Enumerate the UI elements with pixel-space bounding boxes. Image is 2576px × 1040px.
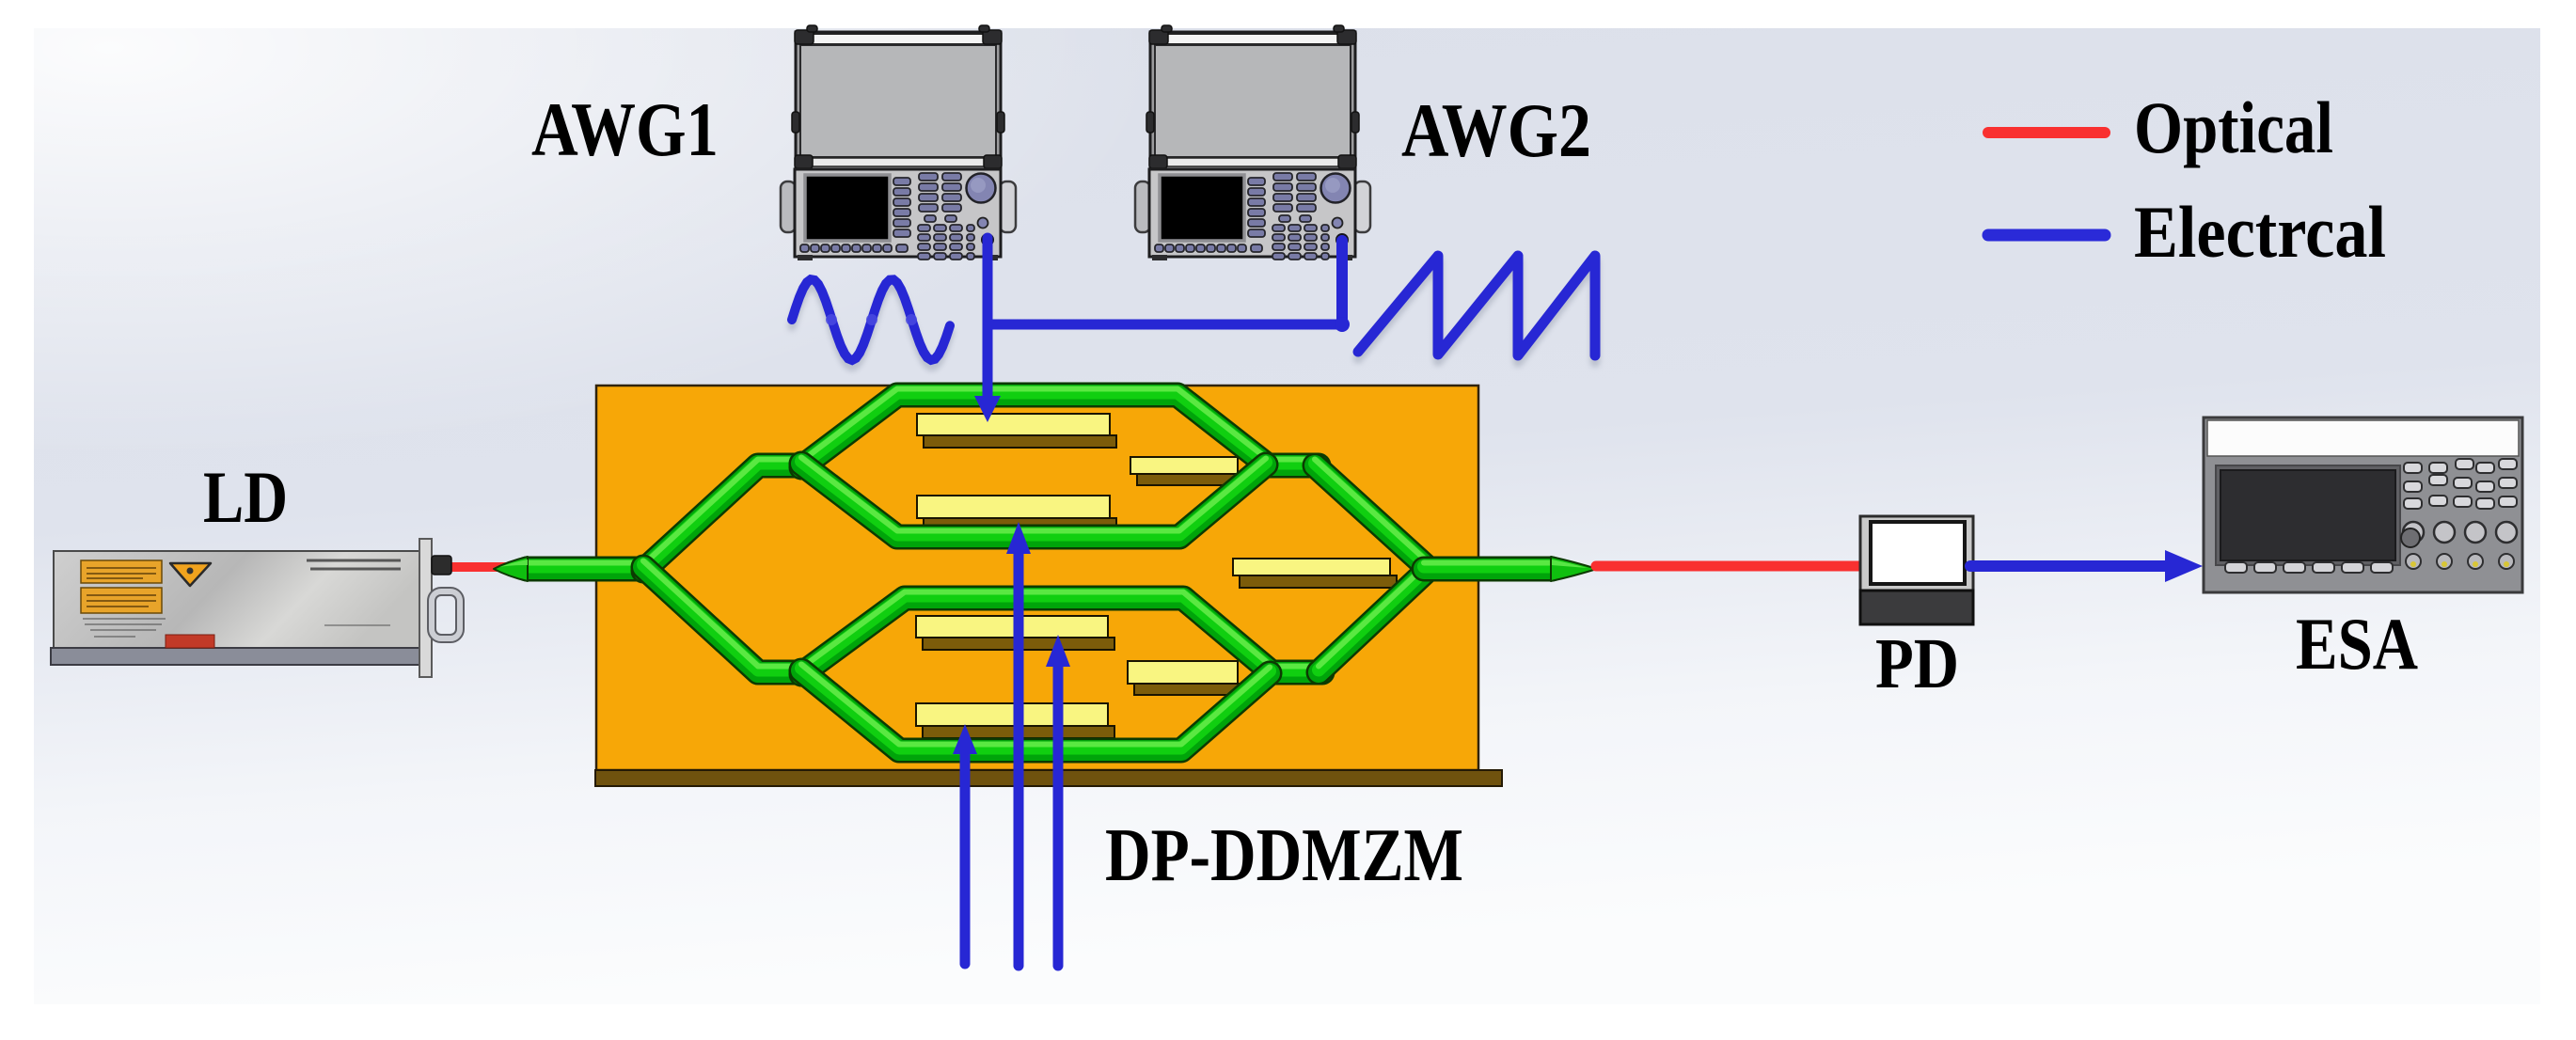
electrode E2 upper-MZM bias [1130,457,1244,485]
ESA screen [2216,465,2400,565]
PD photodetector body [1860,516,1973,591]
optical fiber chip to PD (red) [1596,561,1863,572]
wire lower branch output diagonal [1319,564,1428,673]
LD red sticker [166,635,214,648]
electrode E6 lower-MZM bias [1128,661,1244,695]
LD front plate [419,539,432,677]
sine node dots [826,314,917,325]
sine wave symbol (AWG1 signal) [792,279,950,360]
LD orange label 2 [81,588,162,613]
LD right-side print [307,560,401,569]
DP-DDMZM chip substrate [596,386,1478,770]
LD orange label 1 [81,560,162,583]
ESA control buttons [2404,459,2517,509]
electrode E1 upper-MZM upper arm [917,414,1116,448]
link wire AWG2 to AWG1 drop [988,320,1342,330]
ESA spectrum analyzer body [2204,418,2522,592]
svg-text:AWG1: AWG1 [531,87,719,172]
wire upper MZM top arm [801,389,1319,468]
wire input splitter upper branch [643,460,805,572]
wire input waveguide [527,563,647,570]
LD warning triangle [170,563,211,586]
ESA softkey buttons [2225,562,2393,573]
arrowhead into electrode E1 [974,396,1001,422]
legend electrical line shadow [1990,237,2103,247]
wire input splitter lower branch [643,561,805,673]
svg-text:Optical: Optical [2134,87,2333,168]
sawtooth wave symbol (AWG2 signal) [1358,256,1595,355]
svg-text:DP-DDMZM: DP-DDMZM [1105,814,1463,897]
sine wave symbol shadow [792,286,950,367]
input fiber cone [494,557,528,581]
junction dot [1335,317,1350,332]
svg-text:ESA: ESA [2296,603,2418,685]
svg-text:PD: PD [1875,624,1959,703]
chip base brown band [595,770,1502,786]
svg-text:LD: LD [203,456,288,538]
wire lower MZM top arm [801,592,1322,675]
ESA connectors row [2406,554,2514,569]
bias arrow 1 (lower MZM lower electrode) [953,724,977,964]
svg-text:AWG2: AWG2 [1401,87,1591,173]
PD base [1860,591,1973,624]
legend electrical blue line [1988,229,2105,242]
AWG1 arbitrary waveform generator [781,25,1016,260]
ESA knobs row [2403,522,2517,543]
LD fiber connector [432,556,451,575]
PD window [1871,522,1965,584]
output fiber cone [1551,557,1597,581]
AWG1 drop wire to chip [983,238,993,399]
wire output waveguide [1424,563,1552,570]
LD laser module body [51,551,424,665]
PD to ESA electrical arrow [1970,550,2203,582]
sawtooth wave symbol shadow [1358,262,1595,362]
LD handle [432,591,460,638]
electrode E4 main bias [1233,559,1397,588]
LD fine print lines [83,619,166,637]
wire upper MZM bottom arm [801,458,1266,538]
optical fiber LD to chip (red) [446,562,513,572]
AWG2 drop wire [1336,241,1348,324]
wire lower MZM bottom arm [801,665,1270,751]
legend optical line shadow [1990,134,2103,145]
AWG2 arbitrary waveform generator [1135,25,1370,260]
wire upper branch output diagonal [1315,460,1428,569]
electrode E5 lower-MZM upper arm [916,616,1114,650]
electrode E7 lower-MZM lower arm [916,703,1114,738]
legend optical red line [1988,127,2105,138]
bias arrow 2 (upper MZM lower electrode) [1006,522,1031,966]
electrode E3 upper-MZM lower arm [917,496,1116,530]
svg-text:Electrcal: Electrcal [2134,191,2386,273]
bias arrow 3 (lower MZM upper electrode) [1046,635,1070,966]
